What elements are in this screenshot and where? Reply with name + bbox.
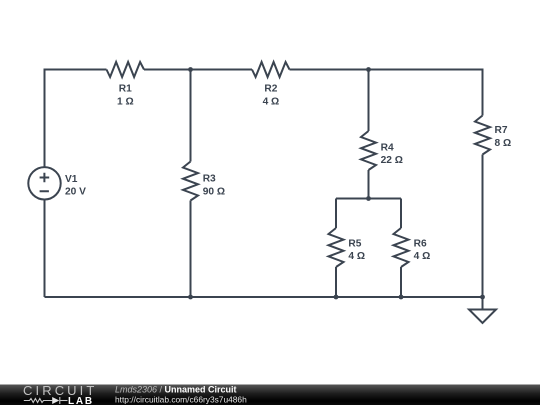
svg-text:4 Ω: 4 Ω — [263, 97, 280, 108]
svg-text:90 Ω: 90 Ω — [203, 186, 225, 197]
wire bottom rail — [45, 296, 483, 298]
svg-text:20 V: 20 V — [65, 187, 86, 198]
svg-text:R1: R1 — [119, 84, 132, 95]
ground — [482, 297, 484, 310]
wire top rail left segment — [45, 70, 107, 168]
svg-text:R2: R2 — [264, 84, 277, 95]
resistor R3 — [183, 162, 198, 201]
wire R6 bottom — [400, 267, 402, 297]
svg-text:22 Ω: 22 Ω — [381, 155, 403, 166]
wire R4 to mid node — [368, 170, 370, 199]
svg-text:http://circuitlab.com/c66ry3s7: http://circuitlab.com/c66ry3s7u486h — [115, 394, 247, 404]
wire R6 top — [400, 199, 402, 229]
node F junction R6 bottom — [399, 295, 404, 300]
svg-text:R6: R6 — [414, 238, 427, 249]
resistor R4 — [361, 131, 376, 170]
resistor R1 — [107, 62, 145, 77]
resistor R5 — [329, 228, 344, 267]
wire R5 bottom — [335, 267, 337, 297]
svg-text:V1: V1 — [65, 174, 78, 185]
wire top rail right segment — [290, 70, 483, 116]
wire V1 bottom to bottom rail — [44, 200, 46, 298]
svg-text:8 Ω: 8 Ω — [495, 138, 512, 149]
svg-text:R3: R3 — [203, 174, 216, 185]
footer bar — [0, 385, 540, 406]
wire top rail middle segment — [144, 69, 252, 71]
wire R7 bottom — [482, 155, 484, 298]
node C junction R4/R5/R6 — [366, 196, 371, 201]
node A junction R1/R2/R3 — [188, 67, 193, 72]
voltage source V1 — [28, 167, 60, 199]
wire R3 branch top — [190, 70, 192, 162]
wire R4 branch top — [368, 70, 370, 132]
svg-text:R4: R4 — [381, 142, 394, 153]
node D junction R3 bottom — [188, 295, 193, 300]
resistor R7 — [475, 116, 490, 155]
svg-text:R7: R7 — [495, 125, 508, 136]
wire R5 top — [335, 199, 337, 229]
CircuitLab logo circuit glyph (resistor + diode) — [24, 397, 68, 404]
svg-text:Lmds2306 / Unnamed Circuit: Lmds2306 / Unnamed Circuit — [115, 385, 237, 395]
node B junction R2/R4/R7 — [366, 67, 371, 72]
svg-text:R5: R5 — [348, 238, 361, 249]
node E junction R5 bottom — [334, 295, 339, 300]
node G junction ground — [480, 295, 485, 300]
svg-text:4 Ω: 4 Ω — [414, 251, 431, 262]
svg-text:LAB: LAB — [68, 396, 94, 405]
resistor R6 — [394, 228, 409, 267]
wire mid bar — [336, 198, 401, 200]
resistor R2 — [252, 62, 290, 77]
wire R3 branch bottom — [190, 201, 192, 298]
svg-text:1 Ω: 1 Ω — [117, 97, 134, 108]
svg-text:4 Ω: 4 Ω — [348, 251, 365, 262]
